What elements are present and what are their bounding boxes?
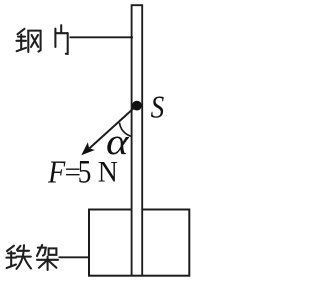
- arrowhead: [81, 142, 95, 155]
- pointer line from 铁架 label to stand: [59, 256, 91, 258]
- label 钢 (steel): [16, 29, 40, 52]
- svg-text:5: 5: [78, 154, 92, 190]
- label 片 (strip): [55, 25, 67, 54]
- pointer line from 钢片 label to strip: [70, 36, 134, 38]
- label 架 (stand): [37, 245, 58, 270]
- svg-text:S: S: [151, 91, 165, 125]
- dot S on strip: [132, 101, 142, 111]
- iron stand block (铁架): [89, 210, 189, 276]
- force arrow line: [90, 108, 135, 149]
- steel strip white interior (covers stand top edge): [132, 5, 143, 274]
- svg-text:F: F: [47, 155, 66, 190]
- angle arc: [120, 123, 132, 137]
- label 铁 (iron): [6, 245, 31, 269]
- svg-text:N: N: [98, 156, 118, 189]
- steel strip outline (left, top, right): [132, 5, 143, 275]
